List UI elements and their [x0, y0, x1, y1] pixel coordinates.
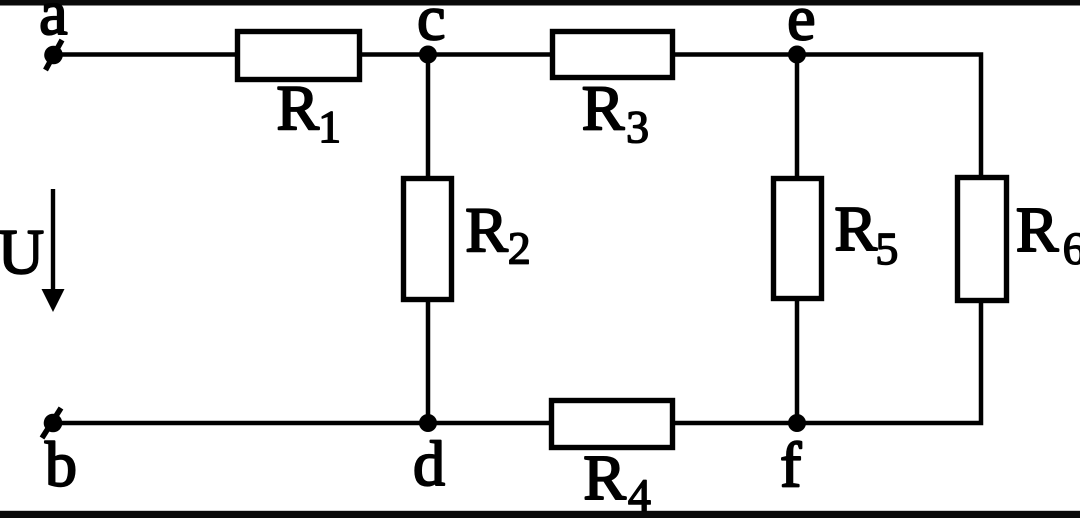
node f junction dot	[788, 414, 806, 432]
resistor R4	[552, 401, 673, 448]
resistor R6	[958, 178, 1007, 301]
wire c to d vertical	[426, 55, 431, 424]
label R1	[278, 87, 319, 129]
terminal b	[42, 408, 62, 438]
node e junction dot	[788, 46, 806, 64]
node f label	[782, 441, 801, 486]
node d junction dot	[419, 414, 437, 432]
resistor R3	[553, 32, 673, 78]
node b label	[45, 441, 75, 486]
wire: top rail a-c-e, right vertical, bottom rail b-d-f	[54, 55, 982, 424]
resistor R2	[404, 179, 452, 300]
resistor R1	[238, 32, 360, 80]
label R5	[836, 208, 877, 250]
node c junction dot	[419, 46, 437, 64]
resistor R5	[774, 179, 822, 299]
wire e to f vertical	[795, 55, 800, 424]
label R4	[585, 457, 626, 499]
node c label	[419, 9, 443, 40]
label R3	[584, 87, 625, 129]
label R2	[467, 209, 508, 251]
node e label	[790, 9, 814, 40]
terminal a	[44, 40, 63, 70]
label R6	[1018, 209, 1059, 251]
voltage arrow U	[42, 189, 65, 312]
label U	[0, 231, 43, 274]
node d label	[415, 441, 444, 486]
node a label	[41, 4, 66, 35]
